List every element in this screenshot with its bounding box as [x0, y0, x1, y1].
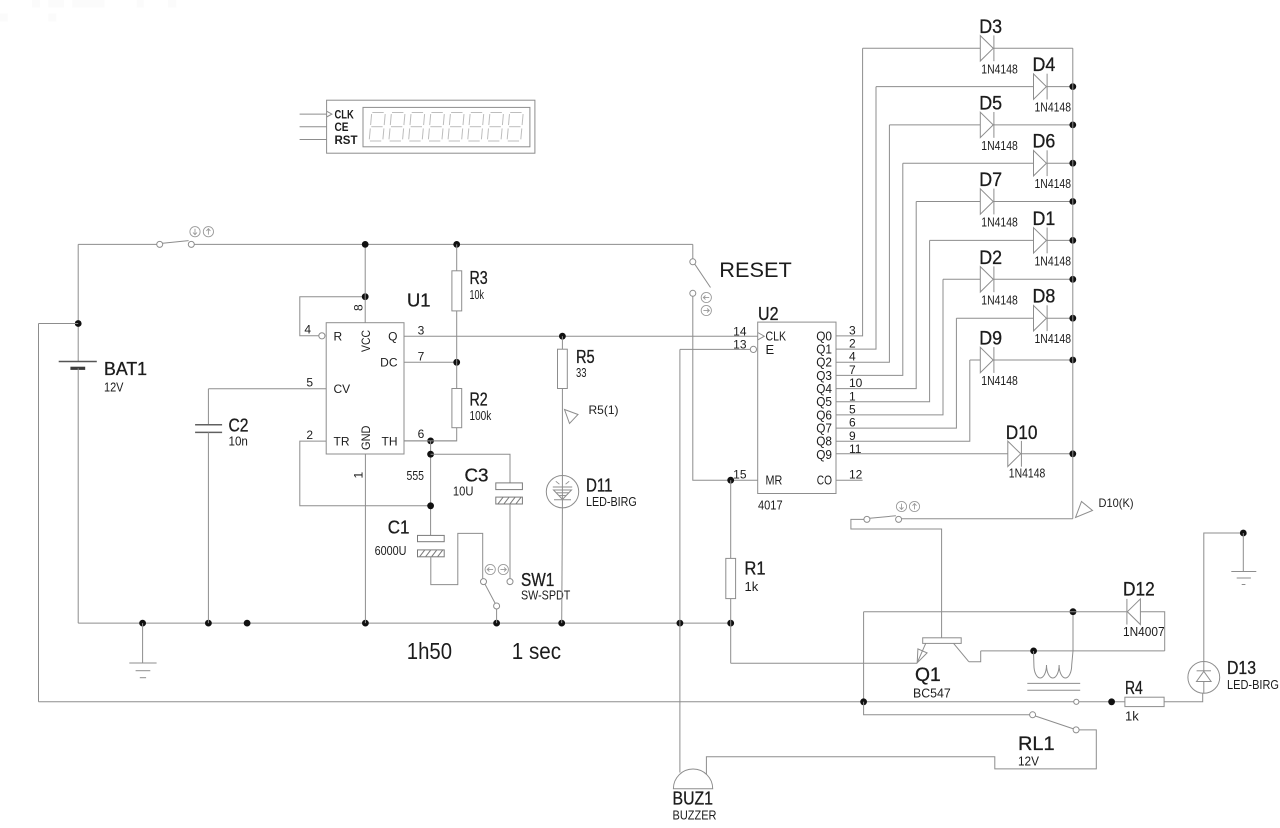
svg-text:5: 5 — [849, 402, 856, 416]
switch SW1 — [481, 579, 514, 609]
svg-text:R1: R1 — [745, 559, 766, 579]
svg-text:DC: DC — [380, 356, 398, 370]
svg-text:CV: CV — [334, 382, 351, 396]
node coil left — [1030, 648, 1037, 655]
wire riser to D7 anode — [916, 201, 980, 203]
node pin7 R2 R3 — [453, 359, 460, 366]
wire TH junction column — [430, 441, 432, 536]
svg-text:100k: 100k — [470, 408, 492, 423]
wire C1 bottom to SW1 left — [431, 533, 483, 584]
node Q to R5 — [559, 333, 566, 340]
wire R3 top lead — [456, 244, 458, 270]
svg-text:3: 3 — [849, 323, 856, 337]
svg-text:12V: 12V — [104, 380, 124, 395]
wire D9 cathode to bus — [994, 359, 1073, 361]
wire U1 pin7 DC — [404, 361, 457, 363]
wire C2 bottom lead — [207, 432, 209, 623]
wire battery- down to ground bus — [77, 368, 79, 623]
wire Q4 riser — [836, 202, 916, 389]
wire relay blade to buzzer loop — [706, 730, 1096, 775]
svg-text:2: 2 — [306, 428, 313, 442]
power switch — [157, 241, 195, 248]
wire Q5 riser — [836, 240, 930, 401]
svg-text:4: 4 — [849, 350, 856, 364]
svg-text:1N4148: 1N4148 — [981, 61, 1018, 76]
node bus D1 — [1069, 237, 1076, 244]
node VCC rail R3 — [453, 241, 460, 248]
diode D1 1N4148 — [1034, 228, 1048, 254]
wire fixed contact to R4 — [1079, 701, 1125, 703]
wire riser to D8 anode — [956, 317, 1033, 319]
display digit 6 — [468, 113, 484, 142]
wire coil right terminal — [1072, 612, 1074, 651]
svg-text:1k: 1k — [745, 579, 759, 594]
wire R2 bottom lead — [404, 428, 457, 441]
svg-text:10n: 10n — [229, 434, 248, 449]
svg-text:7: 7 — [849, 363, 856, 377]
wire U1 pin8 VCC — [364, 244, 366, 322]
node R1 ground — [727, 620, 734, 627]
svg-text:Q9: Q9 — [816, 447, 832, 462]
svg-text:D2: D2 — [979, 248, 1002, 269]
wire Q6 riser — [836, 279, 943, 415]
capacitor C1 — [418, 535, 445, 556]
svg-text:CO: CO — [817, 473, 832, 488]
display digit 8 — [507, 113, 523, 142]
node bus D4 — [1069, 83, 1076, 90]
node SW1 ground — [493, 620, 500, 627]
diode D6 1N4148 — [1034, 150, 1048, 176]
wire Q1 riser — [836, 87, 876, 349]
svg-text:D3: D3 — [979, 17, 1002, 38]
node D11 ground — [558, 620, 565, 627]
svg-text:BC547: BC547 — [913, 686, 951, 701]
svg-text:RST: RST — [335, 133, 359, 147]
wire riser to D6 anode — [903, 162, 1034, 164]
transistor Q1 BC547 — [917, 638, 969, 663]
wire C2 top to U1 pin5 — [208, 388, 326, 390]
node marker arrow R5(1) — [565, 410, 579, 424]
wire C2 top lead — [207, 389, 209, 425]
wire SW1 pole to ground bus — [496, 609, 498, 623]
diode D9 1N4148 — [980, 347, 994, 373]
svg-text:C2: C2 — [229, 416, 249, 436]
display digit 5 — [448, 113, 464, 142]
wire D8 cathode to bus — [1047, 317, 1073, 319]
svg-text:D7: D7 — [979, 170, 1002, 191]
SW1 actuator right — [498, 564, 508, 574]
svg-text:R5: R5 — [576, 347, 595, 367]
svg-text:TR: TR — [334, 434, 350, 448]
wire reset switch to MR — [693, 296, 758, 480]
SW1 actuator left — [485, 564, 495, 574]
svg-text:1k: 1k — [1125, 709, 1139, 724]
svg-text:R: R — [334, 329, 343, 343]
diode D10 1N4148 — [1008, 441, 1022, 467]
U1 pin 4 bubble — [319, 333, 325, 339]
svg-text:D6: D6 — [1033, 132, 1056, 153]
capacitor C3 — [496, 483, 523, 504]
wire U2 E to buzzer column — [680, 348, 750, 350]
U2 pin E bubble — [750, 346, 756, 352]
display digit 3 — [409, 113, 425, 142]
resistor R3 — [452, 271, 462, 311]
wire riser to D2 anode — [943, 278, 980, 280]
svg-text:1N4007: 1N4007 — [1123, 624, 1165, 639]
wire Q8 riser — [836, 360, 970, 441]
node TH to TR — [427, 502, 434, 509]
wire riser to D5 anode — [889, 124, 980, 126]
diode D7 1N4148 — [980, 189, 994, 215]
relay RL1 coil — [1034, 651, 1074, 678]
svg-text:8: 8 — [352, 304, 366, 311]
svg-text:1N4148: 1N4148 — [1035, 176, 1072, 191]
switch hold — [864, 516, 902, 523]
hold switch actuator up — [909, 501, 919, 511]
ground — [129, 623, 156, 678]
node marker arrow D10(K) — [1076, 502, 1093, 518]
svg-text:1N4148: 1N4148 — [1035, 331, 1072, 346]
display module body — [327, 100, 535, 153]
wire D12 net down to bottom rail — [863, 612, 865, 702]
svg-text:1 sec: 1 sec — [512, 638, 562, 664]
svg-text:1N4148: 1N4148 — [981, 292, 1018, 307]
wire D7 cathode to bus — [994, 201, 1073, 203]
svg-text:1N4148: 1N4148 — [1009, 466, 1046, 481]
wire D6 cathode to bus — [1047, 162, 1073, 164]
svg-text:5: 5 — [306, 376, 313, 390]
wire riser to D9 anode — [970, 359, 981, 361]
wire D2 cathode to bus — [994, 278, 1073, 280]
svg-text:13: 13 — [733, 338, 747, 352]
display pin CE wire — [300, 126, 327, 128]
svg-text:14: 14 — [733, 324, 747, 338]
battery BAT1 — [59, 362, 97, 369]
led D11 — [546, 476, 578, 508]
svg-text:7: 7 — [418, 350, 425, 364]
wire R2 top lead — [456, 362, 458, 388]
wire riser to D1 anode — [930, 239, 1034, 241]
svg-text:VCC: VCC — [359, 330, 373, 352]
svg-text:1h50: 1h50 — [407, 638, 452, 664]
display digit 2 — [389, 113, 405, 142]
node pin6 junction — [427, 438, 434, 445]
node bus D5 — [1069, 122, 1076, 129]
display pin CLK wire — [300, 113, 327, 115]
svg-text:4017: 4017 — [758, 498, 783, 513]
counter U2 4017 body — [758, 322, 836, 493]
svg-text:R2: R2 — [470, 390, 488, 410]
wire R5 bottom lead — [561, 389, 563, 476]
node bus D7 — [1069, 198, 1076, 205]
resistor R1 — [726, 558, 736, 598]
diode D5 1N4148 — [980, 112, 994, 138]
diode D4 1N4148 — [1034, 74, 1048, 100]
wire to C3 top — [431, 454, 510, 483]
wire ground bus — [78, 622, 731, 624]
node spare ground junction — [244, 620, 251, 627]
svg-text:D12: D12 — [1123, 580, 1155, 601]
wire D11 to ground bus — [561, 508, 564, 623]
relay RL1 fixed contact terminal — [1074, 699, 1079, 704]
RESET actuator right — [701, 305, 711, 315]
U2 pin CO stub — [836, 479, 863, 481]
svg-text:1: 1 — [849, 389, 856, 403]
svg-text:U2: U2 — [758, 304, 779, 324]
node bus D2 — [1069, 276, 1076, 283]
svg-text:R3: R3 — [470, 268, 488, 288]
wire D10 cathode to bus — [1021, 453, 1072, 455]
svg-text:6: 6 — [418, 427, 425, 441]
wire C3 bottom to SW1 — [509, 504, 511, 579]
wire D12 cathode net — [864, 611, 1127, 613]
diode D2 1N4148 — [980, 266, 994, 292]
svg-text:12: 12 — [849, 468, 863, 482]
svg-text:33: 33 — [576, 365, 587, 380]
svg-text:1N4148: 1N4148 — [981, 215, 1018, 230]
svg-text:12V: 12V — [1018, 754, 1039, 769]
wire collector to D12 anode net — [981, 650, 1165, 652]
wire riser to D4 anode — [876, 86, 1034, 88]
svg-text:D5: D5 — [979, 93, 1002, 114]
wire to Q1 emitter — [731, 662, 917, 664]
node ground right — [1240, 530, 1247, 537]
wire R3 bottom lead — [456, 311, 458, 362]
resistor R5 — [558, 349, 568, 388]
wire battery+ to switch — [78, 243, 157, 245]
node ground symbol junction — [139, 620, 146, 627]
wire U1 pin1 GND — [364, 454, 366, 623]
node C2 ground — [205, 620, 212, 627]
wire Q9 to D10 — [836, 453, 1008, 455]
wire U1 pin4 — [300, 297, 365, 336]
node pin4 to VCC — [362, 293, 369, 300]
svg-text:LED-BIRG: LED-BIRG — [586, 494, 637, 509]
wire Q2 riser — [836, 125, 889, 362]
svg-text:4: 4 — [304, 323, 311, 337]
U2 clock triangle — [758, 333, 765, 340]
node bus D10 — [1069, 450, 1076, 457]
svg-text:10: 10 — [849, 376, 863, 390]
svg-text:C3: C3 — [465, 466, 489, 486]
wire D12 anode lead — [1140, 612, 1164, 651]
relay RL1 contact — [1030, 712, 1080, 733]
svg-text:1N4148: 1N4148 — [981, 373, 1018, 388]
svg-text:1: 1 — [352, 472, 366, 479]
wire bus to hold switch — [902, 518, 1073, 520]
svg-text:15: 15 — [733, 468, 747, 482]
diode D3 1N4148 — [980, 35, 994, 61]
diode D8 1N4148 — [1034, 305, 1048, 331]
node coil to D12 cathode net — [1070, 608, 1077, 615]
node bus D8 — [1069, 315, 1076, 322]
svg-text:9: 9 — [849, 429, 856, 443]
node R4 left — [1108, 698, 1115, 705]
buzzer BUZ1 — [673, 769, 712, 789]
svg-text:BAT1: BAT1 — [104, 359, 147, 379]
power switch actuator up — [203, 227, 213, 237]
svg-text:RL1: RL1 — [1018, 734, 1055, 755]
wire left rail down — [38, 324, 40, 702]
relay RL1 core — [1027, 683, 1080, 690]
RESET actuator left — [701, 292, 711, 302]
node bus D9 — [1069, 357, 1076, 364]
svg-text:R5(1): R5(1) — [589, 403, 619, 417]
wire Q0 riser — [836, 48, 863, 336]
svg-text:Q1: Q1 — [915, 665, 941, 686]
node bus D6 — [1069, 160, 1076, 167]
wire rail down to reset switch — [692, 244, 694, 258]
wire D1 cathode to bus — [1047, 239, 1073, 241]
wire to relay common — [864, 702, 1030, 715]
wire Q1 collector jog — [969, 651, 981, 662]
svg-text:D13: D13 — [1227, 658, 1256, 678]
svg-text:D10(K): D10(K) — [1099, 496, 1134, 510]
wire Q7 riser — [836, 318, 956, 428]
display digit 4 — [428, 113, 444, 142]
wire switch to VCC rail — [194, 243, 693, 245]
wire battery tap to left rail — [39, 323, 79, 325]
power switch actuator down — [190, 227, 200, 237]
wire U1 pin2 TR — [300, 441, 431, 506]
wire riser to D3 anode — [863, 47, 981, 49]
wire buzzer column — [679, 349, 681, 772]
svg-text:C1: C1 — [388, 518, 410, 538]
svg-text:R4: R4 — [1125, 678, 1143, 698]
svg-text:D1: D1 — [1033, 209, 1056, 230]
wire D3 cathode to bus — [994, 47, 1073, 49]
svg-text:10U: 10U — [453, 484, 474, 499]
node MR R1 — [727, 477, 734, 484]
wire bottom rail — [39, 701, 1074, 703]
svg-text:U1: U1 — [407, 291, 431, 311]
wire R5 top lead — [561, 336, 563, 349]
wire D4 cathode to bus — [1047, 86, 1073, 88]
svg-text:3: 3 — [418, 324, 425, 338]
display digit 1 — [369, 113, 385, 142]
svg-text:RESET: RESET — [719, 258, 792, 282]
wire R4 to D13 — [1164, 693, 1203, 702]
svg-text:D4: D4 — [1033, 55, 1056, 76]
svg-text:E: E — [766, 342, 775, 357]
svg-text:D9: D9 — [979, 329, 1002, 350]
svg-text:10k: 10k — [470, 287, 485, 302]
svg-text:BUZZER: BUZZER — [673, 808, 717, 823]
wire D13 to ground — [1204, 533, 1244, 662]
svg-text:GND: GND — [359, 425, 373, 450]
capacitor C2 — [195, 425, 222, 433]
node battery tap — [75, 320, 82, 327]
display digit 7 — [488, 113, 504, 142]
wire hold switch to Q1 base — [851, 519, 942, 637]
wire switch left down to battery — [77, 244, 79, 361]
svg-text:2: 2 — [849, 337, 856, 351]
led D13 — [1188, 662, 1220, 694]
switch RESET — [690, 259, 711, 297]
svg-text:D8: D8 — [1033, 287, 1056, 308]
wire diode output bus — [1072, 48, 1074, 519]
node U1 pin1 ground — [362, 620, 369, 627]
svg-text:1N4148: 1N4148 — [981, 138, 1018, 153]
svg-text:TH: TH — [382, 434, 398, 448]
wire D5 cathode to bus — [994, 124, 1073, 126]
node VCC rail pin8 — [362, 241, 369, 248]
svg-text:1N4148: 1N4148 — [1035, 100, 1072, 115]
svg-text:Q: Q — [388, 329, 397, 343]
node TH to C3 — [427, 451, 434, 458]
svg-text:555: 555 — [407, 468, 425, 483]
svg-text:SW-SPDT: SW-SPDT — [521, 588, 570, 603]
display clock triangle — [327, 111, 332, 117]
wire R1 top lead — [730, 480, 732, 558]
display pin RST wire — [300, 139, 327, 141]
svg-text:6: 6 — [849, 416, 856, 430]
svg-text:MR: MR — [766, 473, 783, 488]
wire Q3 riser — [836, 163, 903, 375]
wire U1 pin3 Q to U2 CLK — [404, 335, 758, 337]
svg-text:D11: D11 — [586, 476, 613, 496]
svg-text:D10: D10 — [1006, 423, 1038, 444]
op-amp U1 555 body — [326, 323, 404, 454]
diode D12 1N4007 — [1127, 599, 1141, 625]
svg-text:1N4148: 1N4148 — [1035, 253, 1072, 268]
resistor R2 — [452, 389, 462, 428]
node bottom rail junction — [860, 698, 867, 705]
wire R1 bottom lead — [730, 599, 732, 664]
wire U1 pin6 TH — [404, 440, 457, 442]
svg-text:BUZ1: BUZ1 — [673, 789, 714, 809]
ground right — [1231, 533, 1256, 585]
resistor R4 — [1125, 697, 1164, 706]
hold switch actuator down — [896, 501, 906, 511]
svg-text:LED-BIRG: LED-BIRG — [1227, 677, 1279, 692]
svg-text:6000U: 6000U — [375, 543, 407, 558]
node buzzer column ground — [677, 620, 684, 627]
